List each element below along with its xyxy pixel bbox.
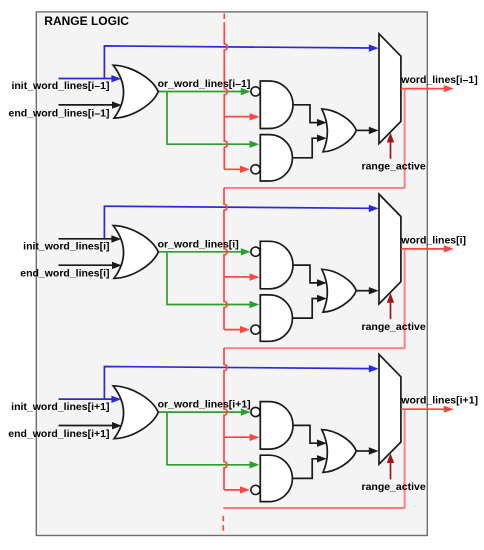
wire init_word_lines[i–1] input — [59, 78, 113, 80]
wire green or_word_lines[i+1] — [158, 411, 242, 413]
OR gate U23 (combines NAND outputs) — [322, 269, 357, 312]
svg-text:range_active: range_active — [362, 321, 426, 333]
svg-text:range_active: range_active — [362, 161, 426, 173]
AND gate U11 (inverted top input) — [260, 81, 293, 129]
wire green or_word_lines[i–1] — [158, 91, 242, 93]
wire word_lines[i–1] output — [401, 88, 445, 90]
wire U12 output to OR U13 — [292, 138, 318, 158]
net word_lines[i+2] dashed continuation (bottom) — [222, 516, 224, 521]
wire green or_word_lines[i] — [158, 251, 242, 253]
wire word_lines[i+1] output — [401, 408, 445, 410]
AND gate U12 (inverted bottom input) — [260, 135, 292, 181]
wire red elbow branch to lower NAND bubble input — [224, 489, 242, 491]
net word_lines bus vertical (row 3) — [224, 348, 227, 490]
MUX M2 (word line select) — [379, 194, 401, 304]
inverter bubble on U11 top input — [251, 87, 260, 96]
wire end_word_lines[i] input — [59, 264, 114, 266]
svg-text:range_active: range_active — [362, 481, 426, 493]
svg-text:word_lines[i–1]: word_lines[i–1] — [400, 74, 477, 86]
wire U31 output to OR U33 — [293, 425, 318, 443]
wire green or_word_lines[i+1] branch to lower NAND — [167, 412, 251, 465]
svg-text:or_word_lines[i–1]: or_word_lines[i–1] — [158, 78, 251, 90]
wire OR U33 output to MUX — [356, 450, 370, 452]
inverter bubble on U12 bottom input — [251, 165, 260, 174]
net word_lines[i-2] dashed continuation (top) — [223, 14, 225, 19]
svg-text:word_lines[i]: word_lines[i] — [400, 234, 466, 246]
wire blue init_word_lines[i] to MUX select-0 input — [104, 206, 370, 239]
wire U22 output to OR U23 — [292, 299, 318, 319]
wire red branch to upper NAND input — [224, 116, 251, 118]
svg-text:init_word_lines[i–1]: init_word_lines[i–1] — [11, 80, 109, 92]
net word_lines bus vertical (row 2) — [224, 188, 227, 330]
svg-text:init_word_lines[i]: init_word_lines[i] — [23, 241, 109, 253]
wire range_active select into MUX M3 — [390, 462, 392, 479]
wire OR U23 output to MUX — [356, 290, 370, 292]
wire red branch to upper NAND input — [224, 276, 251, 278]
wire word_lines[i+1] feedback continuation (bottom) — [223, 409, 404, 508]
svg-text:init_word_lines[i+1]: init_word_lines[i+1] — [11, 401, 109, 413]
svg-text:or_word_lines[i]: or_word_lines[i] — [158, 238, 239, 250]
wire end_word_lines[i–1] input — [59, 104, 114, 106]
schematic background frame — [36, 12, 427, 536]
wire U11 output to OR U13 — [293, 105, 318, 123]
OR gate U10 (init+end) — [113, 65, 158, 118]
wire init_word_lines[i+1] input — [59, 398, 113, 400]
wire blue init_word_lines[i+1] to MUX select-0 input — [104, 367, 370, 400]
wire red elbow branch to lower NAND bubble input — [224, 329, 242, 331]
wire range_active select into MUX M1 — [390, 142, 392, 159]
OR gate U13 (combines NAND outputs) — [322, 109, 357, 152]
svg-text:or_word_lines[i+1]: or_word_lines[i+1] — [158, 399, 251, 411]
MUX M3 (word line select) — [379, 354, 401, 464]
wire OR U13 output to MUX — [356, 129, 370, 131]
OR gate U33 (combines NAND outputs) — [322, 430, 357, 473]
AND gate U31 (inverted top input) — [260, 402, 293, 450]
OR gate U20 (init+end) — [113, 226, 158, 279]
inverter bubble on U21 top input — [251, 247, 260, 256]
wire red branch to upper NAND input — [224, 436, 251, 438]
OR gate U30 (init+end) — [113, 386, 158, 439]
wire end_word_lines[i+1] input — [59, 425, 114, 427]
MUX M1 (word line select) — [379, 34, 401, 144]
wire green or_word_lines[i–1] branch to lower NAND — [167, 92, 251, 145]
AND gate U32 (inverted bottom input) — [260, 455, 292, 501]
wire word_lines[i] feedback to next row bus — [224, 249, 405, 348]
svg-text:end_word_lines[i+1]: end_word_lines[i+1] — [8, 428, 109, 440]
inverter bubble on U32 bottom input — [251, 485, 260, 494]
wire U32 output to OR U33 — [292, 459, 318, 479]
wire U21 output to OR U23 — [293, 265, 318, 283]
svg-text:end_word_lines[i–1]: end_word_lines[i–1] — [9, 107, 110, 119]
inverter bubble on U31 top input — [251, 407, 260, 416]
svg-text:end_word_lines[i]: end_word_lines[i] — [20, 268, 109, 280]
wire red elbow branch to lower NAND bubble input — [224, 168, 242, 170]
inverter bubble on U22 bottom input — [251, 325, 260, 334]
wire word_lines[i] output — [401, 248, 445, 250]
wire word_lines[i–1] feedback to next row bus — [224, 89, 405, 188]
wire init_word_lines[i] input — [59, 238, 113, 240]
svg-text:RANGE LOGIC: RANGE LOGIC — [44, 14, 129, 28]
wire blue init_word_lines[i–1] to MUX select-0 input — [104, 46, 370, 79]
wire range_active select into MUX M2 — [390, 302, 392, 319]
net word_lines bus vertical (row 1) — [224, 27, 227, 169]
AND gate U21 (inverted top input) — [260, 241, 293, 288]
svg-text:word_lines[i+1]: word_lines[i+1] — [400, 395, 478, 407]
wire green or_word_lines[i] branch to lower NAND — [167, 252, 251, 305]
AND gate U22 (inverted bottom input) — [260, 295, 292, 341]
